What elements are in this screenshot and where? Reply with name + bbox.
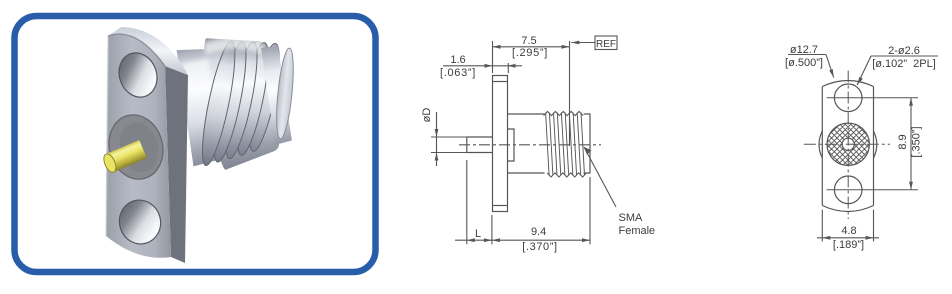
photo: flange right side face — [165, 66, 188, 263]
o12.7 leader arrowhead — [829, 69, 834, 77]
REF leader arrowhead — [571, 41, 579, 45]
REF box — [595, 36, 617, 50]
svg-text:[.295”]: [.295”] — [512, 47, 548, 59]
front view: center thread circle — [827, 123, 869, 165]
dim 4.8: left extension line — [821, 210, 823, 242]
side view: contact pin outline — [467, 137, 493, 153]
svg-text:2-ø2.6: 2-ø2.6 — [888, 45, 920, 57]
dim L/9.4: shared extension line — [491, 215, 493, 244]
dim 4.8: left arrowhead — [822, 236, 830, 240]
side view: thread crest zigzag top — [544, 111, 583, 115]
dim 8.9: bottom arrowhead — [909, 182, 913, 190]
svg-text:7.5: 7.5 — [521, 35, 536, 47]
photo: flange face top crease — [108, 34, 165, 66]
label o12.7 underline — [788, 54, 826, 56]
side view: thread crest zigzag bottom — [547, 173, 586, 177]
photo: raised thread band — [200, 30, 282, 171]
side view: axis centerline — [459, 144, 601, 146]
svg-text:1.6: 1.6 — [450, 54, 465, 66]
front view: flange side edges — [822, 87, 873, 206]
dim L: left arrowhead — [467, 238, 475, 242]
front view: vertical centerline — [847, 71, 849, 220]
side view: flange plate — [493, 76, 508, 212]
svg-text:[.370”]: [.370”] — [522, 241, 557, 253]
photo: flange rounded top band — [108, 27, 188, 75]
dim 1.6: left arrowhead — [485, 64, 493, 68]
front view: top mounting hole — [834, 84, 862, 112]
photo: top mounting hole — [113, 48, 163, 103]
dim 9.4: right arrowhead — [582, 238, 590, 242]
photo: center recess boss — [102, 109, 170, 186]
dim L + 9.4: dimension line — [455, 239, 590, 241]
dim oD: bottom arrowhead — [435, 153, 439, 161]
SMA Female leader line — [584, 147, 616, 207]
side view: flange bottom chamfer line — [493, 205, 508, 207]
svg-text:ø12.7: ø12.7 — [790, 44, 818, 56]
svg-text:[.350”]: [.350”] — [911, 126, 923, 157]
dim 7.5: left extension line — [492, 41, 494, 73]
label 2-o2.6 underline — [871, 55, 938, 57]
photo: thread rings — [179, 30, 301, 170]
front view: left body bulge arc — [819, 131, 822, 158]
svg-text:L: L — [475, 228, 481, 240]
photo: connector threaded body cylinder — [175, 26, 312, 175]
dim oD: top arrowhead — [435, 129, 439, 137]
dim 4.8: dimension line — [817, 237, 879, 239]
dim oD: bottom extension line — [431, 152, 467, 154]
dim 9.4: left arrowhead — [492, 238, 500, 242]
dim 1.6: right extension line — [507, 63, 509, 73]
dim oD: top extension line — [431, 136, 467, 138]
dim 7.5: right arrowhead — [562, 45, 570, 49]
svg-text:[ø.500”]: [ø.500”] — [785, 57, 823, 69]
svg-text:4.8: 4.8 — [841, 225, 856, 237]
side view: outlines — [467, 76, 590, 212]
svg-text:øD: øD — [421, 108, 433, 123]
svg-text:[.063”]: [.063”] — [440, 67, 476, 79]
front view: center pin circle — [842, 138, 854, 150]
front view: bottom hole horizontal centerline / 8.9 bottom extension — [827, 189, 919, 191]
side view: thread flank lines — [546, 113, 585, 176]
photo: flange left lit edge — [106, 37, 108, 236]
photo: bottom mounting hole — [115, 195, 166, 248]
front view: bottom mounting hole — [834, 176, 862, 204]
dim 1.6: right arrowhead — [508, 64, 516, 68]
front view: flange rounded bottom arc — [822, 206, 873, 212]
svg-text:[ø.102” 2PL]: [ø.102” 2PL] — [872, 58, 936, 70]
photo: thread zone top shine — [203, 32, 264, 62]
SMA Female leader arrowhead — [584, 147, 592, 155]
svg-text:Female: Female — [619, 225, 656, 237]
dim 1.6: dimension line — [443, 65, 522, 67]
svg-text:[.189”]: [.189”] — [833, 239, 864, 251]
svg-text:REF: REF — [596, 39, 616, 50]
side view: boss behind flange — [508, 129, 515, 161]
photo: smooth snout section — [261, 46, 292, 145]
dim 8.9: dimension line — [910, 98, 912, 190]
dim 9.4: right extension line — [589, 177, 591, 244]
front view: crosshatch of thread section — [761, 100, 936, 170]
front view: right body bulge arc — [874, 131, 877, 158]
svg-text:9.4: 9.4 — [531, 226, 546, 238]
dim 7.5: left arrowhead — [493, 45, 501, 49]
dim L: right arrowhead — [484, 238, 492, 242]
photo: end cap face — [273, 47, 296, 139]
photo: flange front face — [106, 34, 171, 258]
dim L: left extension line — [466, 160, 468, 244]
front view: horizontal centerline — [804, 143, 890, 145]
photo: yellow contact pin — [101, 140, 146, 174]
side view: body outline — [508, 114, 591, 173]
svg-text:8.9: 8.9 — [897, 134, 909, 149]
svg-text:SMA: SMA — [619, 212, 644, 224]
dim 7.5: dimension line — [493, 46, 570, 48]
side view: flange top chamfer line — [493, 81, 508, 83]
2-o2.6 leader arrowhead — [857, 77, 863, 85]
dim oD: dimension line — [436, 112, 438, 166]
dim 7.5: right extension line — [569, 41, 571, 146]
dim 8.9: top arrowhead — [909, 98, 913, 106]
front view: flange rounded top arc — [822, 81, 873, 87]
o12.7 leader line — [826, 55, 834, 78]
photo frame: blue rounded border — [15, 16, 376, 272]
dim 4.8: right arrowhead — [866, 236, 874, 240]
front view: top hole horizontal centerline / 8.9 top extension — [827, 97, 919, 99]
photo: highlight streak on shank — [180, 58, 212, 94]
dim 4.8: right extension line — [873, 210, 875, 242]
REF leader line — [571, 42, 595, 44]
2-o2.6 leader line — [857, 56, 871, 85]
